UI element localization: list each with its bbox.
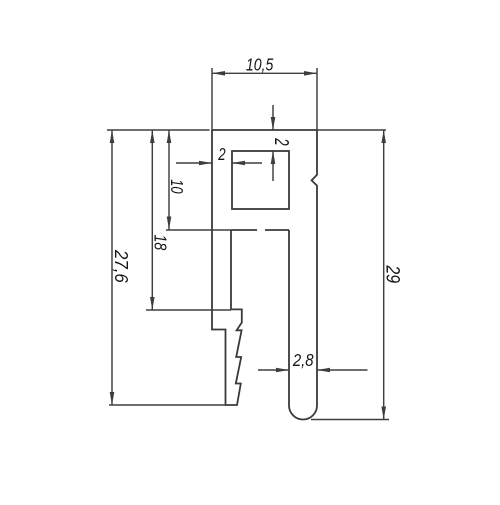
arrowheads <box>110 71 386 420</box>
2 vert down arrow <box>271 117 276 130</box>
square hole <box>232 151 289 209</box>
extension line top-right <box>317 129 386 131</box>
svg-text:27,6: 27,6 <box>111 249 132 283</box>
svg-text:2: 2 <box>270 137 294 145</box>
2 horiz left arrow <box>232 161 245 166</box>
2,8 left arrow <box>317 368 330 373</box>
dimension texts <box>111 55 404 370</box>
svg-text:2: 2 <box>217 145 225 164</box>
svg-text:18: 18 <box>150 235 170 251</box>
extension line y=405 (dim 27,6) <box>109 404 226 406</box>
27,6 bottom <box>110 392 115 405</box>
dimension lines <box>107 68 389 420</box>
dim line 27,6 <box>111 130 113 405</box>
top edge <box>212 129 317 131</box>
extension line y=419.5 (dim 29) <box>311 419 389 421</box>
wall bottom left segment <box>231 229 257 231</box>
profile outline <box>212 130 317 420</box>
svg-text:29: 29 <box>382 264 404 283</box>
dim line 10 <box>168 130 170 230</box>
10 top <box>167 130 172 143</box>
extension line top-left <box>107 129 210 131</box>
18 bottom <box>150 297 155 310</box>
2,8 right arrow <box>276 368 289 373</box>
10,5 right <box>304 71 317 76</box>
18 top <box>150 130 155 143</box>
extension line y=310 (dim 18) <box>146 309 231 311</box>
dim line 29 <box>383 130 385 420</box>
29 top <box>381 130 386 143</box>
dim line 10,5 <box>212 72 317 74</box>
2 horiz right arrow <box>199 161 212 166</box>
10,5 left <box>212 71 225 76</box>
wall bottom right segment <box>265 229 289 231</box>
dim line 18 <box>151 130 153 310</box>
svg-text:10,5: 10,5 <box>246 55 274 75</box>
27,6 top <box>110 130 115 143</box>
2 vert up arrow <box>271 151 276 164</box>
10 bottom <box>167 217 172 230</box>
svg-text:2,8: 2,8 <box>292 350 314 371</box>
svg-text:10: 10 <box>167 179 187 194</box>
extension line y=230 (dim 10) <box>166 229 231 231</box>
dim 2 vertical (hole top) <box>272 105 274 130</box>
dim 2 horizontal (left) <box>176 162 212 164</box>
left edge, foot with serrated edge <box>212 130 242 405</box>
dim 2,8 <box>258 369 289 371</box>
extension verticals for 10,5 <box>211 68 213 130</box>
29 bottom <box>381 407 386 420</box>
right edge with V-notch, leg, rounded bottom, inner leg edge <box>289 130 317 420</box>
